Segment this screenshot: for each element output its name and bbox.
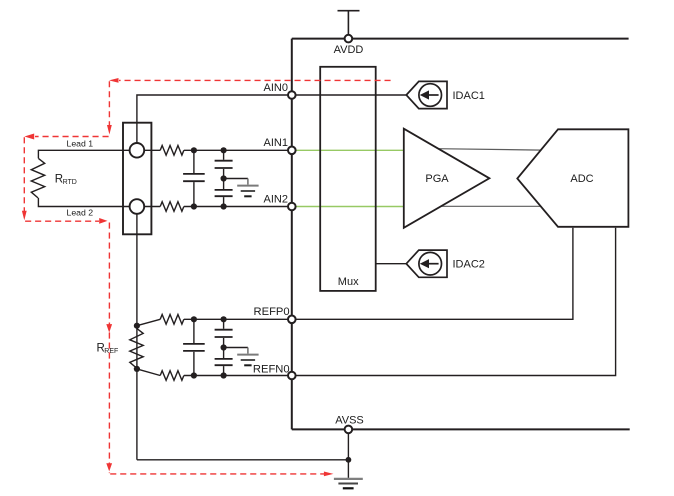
- wire REFP0 right to ADC: [292, 228, 573, 319]
- wire terminal block to RREF: [136, 214, 138, 460]
- junction RREF bottom: [134, 366, 140, 372]
- terminal J1 Lead2 circle: [130, 199, 145, 214]
- wire PGA output to ADC bottom: [439, 205, 542, 207]
- node AIN1 pin: [288, 147, 296, 155]
- capacitor REFP0 to gnd: [215, 319, 233, 347]
- wire AVSS rail: [292, 428, 630, 430]
- wire AVDD rail: [292, 38, 629, 40]
- svg-text:AIN0: AIN0: [264, 82, 288, 94]
- svg-text:IDAC1: IDAC1: [453, 90, 485, 102]
- svg-text:AVDD: AVDD: [334, 44, 364, 56]
- svg-text:AIN2: AIN2: [264, 193, 288, 205]
- node AVSS pin: [345, 426, 353, 434]
- resistor REFN0 filter: [160, 371, 184, 381]
- arrowhead red right Lead2: [99, 218, 107, 224]
- terminal block J1: [123, 123, 151, 235]
- junction AIN1-C2: [221, 147, 227, 153]
- wire REFP0 left: [137, 319, 292, 325]
- wire device left pin rail: [291, 39, 293, 430]
- svg-text:Mux: Mux: [338, 276, 359, 288]
- svg-text:AVSS: AVSS: [335, 415, 364, 427]
- value label R_REF: [97, 343, 119, 356]
- wire REFN0 left: [137, 369, 292, 376]
- arrowhead red left at Lead1 corner: [109, 78, 119, 83]
- svg-text:REFP0: REFP0: [254, 306, 290, 318]
- junction AVSS ground wire: [346, 457, 352, 463]
- arrowhead red down above Lead1: [107, 125, 112, 135]
- resistor AIN1 filter: [160, 146, 184, 156]
- junction REFN0-C1: [191, 372, 197, 378]
- svg-text:REF: REF: [104, 348, 118, 355]
- wire red dashed left down: [23, 137, 25, 211]
- resistor R_REF: [130, 326, 143, 369]
- arrowhead red right to ground: [324, 472, 334, 477]
- resistor AIN2 filter: [160, 202, 184, 212]
- wire Lead 1: [38, 150, 129, 158]
- junction AIN2-C2: [221, 203, 227, 209]
- wire red dashed IDAC1 current top: [119, 79, 391, 81]
- junction AIN gnd caps: [221, 175, 227, 181]
- wire red dashed bottom to ground: [110, 473, 324, 475]
- wire IDAC2: [376, 263, 407, 265]
- mux U1: [320, 67, 376, 291]
- junction REF gnd caps: [221, 344, 227, 350]
- wire AIN1 green: [292, 149, 404, 151]
- wire Lead 2: [38, 198, 129, 207]
- wire AIN0 to IDAC1: [292, 94, 407, 96]
- capacitor AIN2 to gnd: [215, 179, 233, 207]
- node AIN2 pin: [288, 203, 296, 211]
- svg-text:RTD: RTD: [63, 179, 77, 186]
- ground AIN filter: [224, 179, 259, 197]
- junction REFP0-C2: [221, 316, 227, 322]
- svg-text:ADC: ADC: [570, 173, 593, 185]
- wire AIN2 left: [144, 206, 292, 208]
- node REFP0 pin: [288, 316, 296, 324]
- svg-text:PGA: PGA: [425, 173, 449, 185]
- capacitor AIN differential: [183, 150, 205, 206]
- junction AIN2-C1: [191, 203, 197, 209]
- resistor REFP0 filter: [160, 315, 184, 325]
- wire REFN0 right to ADC: [292, 228, 616, 376]
- ground REF filter: [224, 348, 259, 366]
- svg-text:IDAC2: IDAC2: [453, 259, 485, 271]
- power symbol AVDD supply bar: [338, 11, 360, 35]
- junction REFP0-C1: [191, 316, 197, 322]
- capacitor REF differential: [183, 319, 205, 375]
- arrowhead red down left rail: [22, 211, 27, 221]
- wire red dashed Lead2 right: [25, 220, 99, 222]
- wire AIN0: [137, 95, 292, 143]
- current source IDAC2: [406, 250, 447, 277]
- ground AVSS: [334, 479, 363, 488]
- current source IDAC1: [406, 81, 447, 108]
- arrowhead red down mid: [106, 324, 112, 333]
- svg-text:Lead 1: Lead 1: [67, 139, 94, 149]
- wire AIN2 green: [292, 206, 404, 208]
- junction RREF top: [134, 323, 140, 329]
- capacitor REFN0 to gnd: [215, 348, 233, 376]
- junction REFN0-C2: [221, 372, 227, 378]
- wire AVSS to ground: [347, 434, 349, 478]
- node AIN0 pin: [288, 91, 296, 99]
- arrowhead red left Lead1: [24, 134, 34, 140]
- wire red dashed down to Lead1: [108, 81, 110, 125]
- node AVDD pin: [345, 35, 353, 43]
- resistor R_RTD: [31, 158, 44, 198]
- capacitor AIN1 to gnd: [215, 150, 233, 178]
- wire red dashed long down: [108, 223, 110, 474]
- wire red dashed Lead1 left: [35, 136, 109, 138]
- wire RREF bottom to AVSS ground: [137, 459, 349, 461]
- terminal J1 Lead1 circle: [130, 143, 145, 158]
- wire AIN1 left: [144, 149, 292, 151]
- op-amp PGA: [404, 129, 490, 228]
- ADC block: [517, 129, 628, 227]
- node REFN0 pin: [288, 372, 296, 380]
- svg-text:Lead 2: Lead 2: [67, 208, 94, 218]
- arrowhead red down bottom: [106, 463, 112, 471]
- wire PGA output to ADC top: [437, 149, 542, 150]
- value label R_RTD: [55, 173, 77, 186]
- svg-text:REFN0: REFN0: [253, 363, 290, 375]
- svg-text:AIN1: AIN1: [264, 137, 288, 149]
- junction AIN1-C1: [191, 147, 197, 153]
